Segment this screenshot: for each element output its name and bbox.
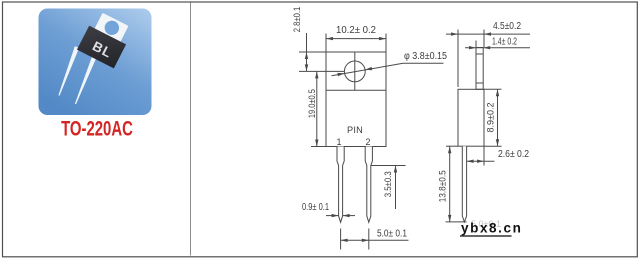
package outline front view: [326, 52, 386, 147]
dimension 8.9±0.2 (body height): [484, 89, 502, 146]
top reference extension: [299, 51, 326, 53]
dimension 13.8±0.5 (lead length): [446, 146, 467, 222]
dimension 5.0±0.1 (lead pitch): [341, 229, 409, 250]
svg-text:1.4± 0.2: 1.4± 0.2: [492, 37, 517, 48]
tab side view: [476, 48, 483, 90]
lead 2 of icon: [75, 54, 97, 104]
metal tab with hole: [94, 13, 129, 44]
watermark underline: [460, 235, 512, 237]
svg-text:ybx8.cn: ybx8.cn: [461, 221, 522, 236]
svg-text:PIN: PIN: [347, 125, 363, 135]
svg-text:1: 1: [336, 137, 341, 147]
svg-text:19.0±0.5: 19.0±0.5: [307, 89, 318, 118]
dimension 3.5±0.3 (lead narrow length): [371, 166, 406, 210]
tab/body boundary line: [326, 89, 386, 91]
hole edge upper: [476, 53, 483, 55]
body bottom extension left: [311, 146, 326, 148]
svg-text:2.6± 0.2: 2.6± 0.2: [498, 149, 529, 160]
hole diameter leader φ3.8±0.15: [332, 63, 444, 76]
svg-text:2: 2: [365, 137, 370, 147]
hole edge lower: [476, 82, 483, 84]
svg-text:5.0± 0.1: 5.0± 0.1: [377, 228, 407, 239]
lead 1 front view: [337, 147, 344, 223]
svg-text:4.5±0.2: 4.5±0.2: [493, 21, 521, 32]
body side view: [458, 89, 484, 146]
dimension 2.6±0.2 (lead offset): [467, 146, 495, 165]
svg-text:13.8±0.5: 13.8±0.5: [437, 170, 448, 202]
dimension 1.4±0.2 (tab thickness): [465, 41, 530, 48]
mounting hole: [344, 61, 365, 82]
dimension 0.9±0.1 (lead width): [326, 215, 355, 217]
svg-text:TO-220AC: TO-220AC: [61, 117, 133, 140]
dimension 19.0±0.5: [316, 71, 318, 146]
svg-text:8.9±0.2: 8.9±0.2: [485, 103, 496, 133]
lead side view: [462, 146, 466, 222]
svg-text:10.2± 0.2: 10.2± 0.2: [336, 25, 376, 36]
dimension 2.8±0.1: [306, 33, 308, 71]
svg-text:0.9± 0.1: 0.9± 0.1: [302, 202, 329, 213]
divider line between panel and drawing: [190, 3, 192, 256]
vertical centerline: [354, 52, 356, 90]
plastic body: [77, 26, 126, 69]
dimension 10.2±0.2: [326, 34, 386, 53]
lead 2 front view: [365, 147, 372, 223]
svg-text:φ 3.8±0.15: φ 3.8±0.15: [404, 51, 447, 62]
blue icon tile: [39, 9, 152, 116]
svg-text:3.5±0.3: 3.5±0.3: [383, 171, 394, 197]
svg-text:2.8±0.1: 2.8±0.1: [292, 7, 303, 33]
dimension 4.5±0.2 (body thickness): [446, 30, 530, 88]
hole horizontal centerline: [299, 70, 345, 72]
tab hole: [102, 18, 121, 37]
lead 1 of icon: [58, 46, 79, 95]
